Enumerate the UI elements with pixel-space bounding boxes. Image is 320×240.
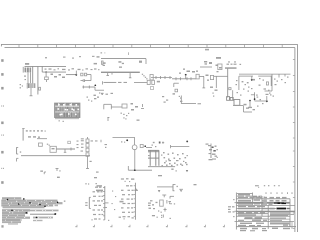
label dot bbox=[124, 218, 125, 219]
label bbox=[105, 144, 108, 145]
junction bbox=[45, 71, 47, 73]
capacitor C11 bbox=[180, 77, 182, 80]
wire bbox=[203, 76, 205, 88]
switch S1 bbox=[142, 104, 144, 107]
wire bbox=[255, 100, 267, 102]
diode D2 bbox=[152, 80, 155, 84]
label bbox=[152, 215, 155, 216]
label bbox=[94, 63, 97, 65]
capacitor C9 bbox=[169, 76, 171, 79]
resistor R1 bbox=[45, 77, 49, 80]
wire bbox=[21, 155, 90, 157]
label bbox=[216, 57, 221, 59]
capacitor C5 bbox=[88, 86, 90, 89]
junction bbox=[94, 84, 96, 86]
dark mark bbox=[186, 140, 188, 142]
wire bbox=[251, 76, 253, 80]
label dots bbox=[91, 219, 92, 220]
wire bbox=[82, 86, 95, 88]
wire bbox=[148, 166, 175, 168]
notes paragraph 2 bbox=[2, 209, 30, 211]
wire bbox=[249, 101, 251, 109]
wire bbox=[232, 90, 234, 100]
label row bbox=[28, 136, 31, 137]
ladder rung bbox=[148, 157, 159, 159]
capacitor C15 bbox=[266, 82, 268, 85]
label bbox=[148, 203, 151, 204]
wire bbox=[134, 137, 136, 145]
label dots bbox=[99, 92, 100, 93]
terminal bbox=[30, 95, 33, 97]
corner wire bbox=[174, 82, 179, 84]
wire bbox=[27, 72, 29, 83]
wire bbox=[45, 80, 47, 82]
wire bbox=[244, 111, 253, 113]
wire bbox=[42, 71, 66, 73]
label bbox=[149, 208, 152, 209]
ladder rung bbox=[148, 149, 159, 151]
bracket pin rail bbox=[26, 83, 28, 89]
label J1 bbox=[25, 63, 29, 65]
wire stub bbox=[111, 73, 113, 75]
label bbox=[118, 61, 121, 63]
wire bbox=[56, 148, 75, 150]
wire bbox=[151, 77, 172, 79]
label bbox=[24, 76, 26, 77]
wire dash bbox=[91, 140, 94, 141]
label bbox=[248, 107, 252, 108]
label bbox=[244, 104, 247, 106]
resistor R10 bbox=[234, 100, 240, 106]
label bbox=[97, 56, 100, 57]
ground bbox=[186, 170, 188, 172]
connector J2 bbox=[28, 83, 35, 88]
label bbox=[187, 71, 191, 73]
junction bbox=[249, 100, 251, 102]
label dashes bbox=[227, 64, 230, 65]
parts cluster bbox=[94, 95, 96, 96]
capacitor C4 bbox=[82, 86, 84, 89]
label bbox=[51, 74, 54, 76]
terminal bbox=[86, 168, 89, 170]
bracket bbox=[102, 81, 104, 84]
down arrow bbox=[158, 190, 161, 192]
arrow bbox=[136, 189, 138, 191]
label bbox=[137, 120, 140, 121]
resistor R2 bbox=[81, 73, 83, 76]
wire bbox=[215, 76, 217, 88]
label bbox=[264, 88, 267, 89]
capacitor C20 bbox=[68, 141, 71, 143]
resistor R3 bbox=[85, 73, 87, 76]
title block bbox=[235, 193, 237, 230]
triangle symbol bbox=[180, 189, 183, 191]
relay K1 bbox=[122, 104, 127, 108]
bracket bbox=[16, 158, 18, 161]
relay K3 cluster bbox=[208, 145, 211, 146]
terminal bbox=[202, 87, 205, 89]
bus bbox=[101, 72, 140, 73]
label dash bbox=[148, 151, 150, 152]
label dots bbox=[47, 144, 48, 145]
wire bbox=[25, 65, 67, 67]
label bbox=[206, 75, 209, 77]
wire stub bbox=[278, 74, 280, 77]
transistor Q1 bbox=[132, 145, 137, 150]
relay K2 detail bbox=[52, 148, 55, 149]
label bbox=[266, 94, 269, 95]
label bbox=[119, 217, 121, 218]
label dots bbox=[121, 141, 122, 142]
label bbox=[216, 65, 218, 67]
label dot bbox=[177, 186, 178, 187]
label bbox=[131, 103, 134, 105]
wire bbox=[32, 66, 34, 84]
stray dots bbox=[112, 191, 113, 192]
wire bbox=[254, 92, 256, 100]
capacitor C7 bbox=[160, 76, 162, 79]
IC U2 outline bbox=[103, 104, 105, 109]
label bbox=[156, 202, 158, 203]
wire bbox=[87, 137, 89, 139]
resistor R6 bbox=[210, 75, 213, 79]
label dots bbox=[59, 120, 60, 121]
label 2 bbox=[159, 142, 161, 144]
terminal bbox=[106, 75, 109, 77]
junction bbox=[185, 74, 187, 76]
net labels bbox=[49, 68, 52, 69]
ladder rail bbox=[155, 150, 157, 166]
wire bbox=[171, 146, 190, 148]
label bbox=[96, 172, 99, 173]
capacitor C8 bbox=[164, 76, 166, 79]
label dot bbox=[59, 170, 60, 171]
wire bbox=[214, 75, 228, 77]
label bbox=[209, 62, 212, 64]
wire bbox=[233, 104, 243, 106]
wire bbox=[94, 87, 96, 90]
bus bar bbox=[225, 67, 237, 68]
label dots bbox=[152, 145, 153, 146]
slanted wire bbox=[142, 74, 143, 75]
ladder rung bbox=[148, 151, 159, 153]
wire bbox=[180, 96, 182, 104]
bracket bbox=[22, 129, 24, 141]
label bbox=[194, 184, 197, 185]
ladder rail bbox=[158, 150, 160, 166]
wire bbox=[239, 75, 253, 77]
polarity mark bbox=[162, 142, 164, 144]
wire bbox=[90, 75, 92, 81]
label bbox=[246, 108, 249, 109]
diode D3 bbox=[140, 145, 143, 148]
wire bbox=[101, 58, 146, 60]
wire bbox=[113, 136, 135, 138]
capacitor C18 bbox=[170, 145, 172, 148]
label bbox=[102, 62, 105, 64]
resistor R11 bbox=[39, 143, 43, 146]
wire bbox=[266, 96, 268, 101]
resistor R5 bbox=[196, 74, 199, 79]
label dots bbox=[260, 99, 262, 100]
wire bbox=[134, 150, 136, 170]
wire bbox=[200, 66, 212, 68]
label dots bbox=[212, 93, 213, 94]
junction bbox=[251, 79, 253, 81]
wire bbox=[64, 149, 66, 152]
wire bbox=[185, 75, 187, 79]
label dots bbox=[245, 84, 247, 85]
label bbox=[59, 74, 62, 76]
label bbox=[205, 49, 209, 51]
label bbox=[173, 93, 176, 94]
bracket bbox=[162, 215, 164, 218]
label bbox=[139, 61, 142, 63]
label dots bbox=[161, 215, 162, 216]
label dots bbox=[88, 100, 89, 101]
ladder rail bbox=[149, 150, 151, 166]
wire bbox=[127, 166, 129, 170]
wire stub bbox=[284, 74, 286, 76]
wire bbox=[181, 103, 196, 105]
wire bbox=[134, 82, 147, 84]
resistor R7 bbox=[175, 89, 178, 92]
connector CN2 pin labels bbox=[134, 183, 136, 220]
capacitor C1 bbox=[39, 87, 41, 90]
label row bbox=[26, 130, 28, 131]
label dots bbox=[20, 84, 21, 85]
resistor array R13 bbox=[86, 144, 89, 148]
wire bbox=[45, 72, 47, 77]
corner bbox=[170, 195, 174, 197]
wire dash bbox=[198, 103, 202, 104]
wire bbox=[271, 74, 273, 91]
wire stub bbox=[105, 202, 109, 204]
junction bbox=[134, 169, 136, 171]
bracket bbox=[88, 197, 90, 208]
bracket pin rail bbox=[22, 67, 24, 73]
label bbox=[57, 177, 60, 178]
wire bbox=[251, 94, 255, 96]
label dots bbox=[158, 210, 159, 211]
wire bbox=[258, 75, 271, 77]
label dots bbox=[242, 81, 244, 82]
label bbox=[157, 81, 160, 83]
bracket bbox=[172, 185, 174, 191]
label bbox=[162, 96, 164, 97]
wire bbox=[95, 89, 104, 91]
wire bbox=[87, 156, 89, 168]
junction bbox=[75, 74, 77, 76]
resistor array R12 bbox=[86, 139, 89, 143]
label bbox=[85, 202, 87, 203]
terminal bbox=[129, 77, 132, 79]
capacitor C16 bbox=[70, 148, 72, 151]
terminal bbox=[64, 151, 67, 153]
label bbox=[121, 178, 124, 179]
label bbox=[158, 175, 162, 176]
pin rail bbox=[166, 200, 168, 204]
capacitor C6 bbox=[155, 76, 157, 79]
label bbox=[153, 142, 155, 143]
label bbox=[62, 77, 65, 79]
diode D1 bbox=[147, 80, 150, 84]
connector CN1 pin labels bbox=[104, 186, 106, 220]
revision marks bbox=[255, 185, 259, 186]
wire bbox=[85, 80, 92, 82]
wire bbox=[66, 74, 76, 76]
label bbox=[40, 171, 43, 172]
DIP switch block SW1 bbox=[55, 103, 81, 118]
ground bbox=[56, 168, 59, 170]
label dots bbox=[123, 117, 124, 118]
capacitor C17 bbox=[100, 140, 102, 142]
wire bbox=[145, 59, 147, 64]
label dots bbox=[259, 78, 261, 79]
junction bbox=[266, 100, 268, 102]
wire bbox=[87, 74, 91, 76]
capacitor C3 bbox=[102, 61, 104, 64]
relay K2 bbox=[50, 146, 56, 152]
capacitor C10 bbox=[175, 77, 177, 80]
resistor array R14 bbox=[86, 148, 89, 152]
resistor R9 bbox=[230, 98, 233, 101]
bracket bbox=[107, 117, 109, 121]
connector J2 hatching bbox=[29, 83, 31, 88]
capacitor C12 bbox=[186, 77, 188, 80]
label bbox=[204, 61, 207, 63]
label dot bbox=[174, 203, 175, 204]
wire bbox=[30, 88, 32, 96]
connector J1 bbox=[25, 68, 32, 73]
label dot bbox=[20, 151, 21, 152]
label bbox=[253, 79, 255, 81]
capacitor C14 bbox=[229, 88, 231, 90]
label rows bbox=[81, 138, 84, 139]
wire bbox=[41, 66, 43, 72]
component field bbox=[163, 152, 165, 153]
resistor R8 bbox=[227, 97, 230, 101]
resistor array R15 bbox=[86, 153, 89, 157]
bracket bbox=[16, 147, 18, 154]
wire bbox=[157, 186, 173, 188]
wire bbox=[238, 76, 240, 90]
wire stub bbox=[105, 207, 107, 209]
wire bbox=[81, 80, 84, 82]
polarity mark bbox=[164, 208, 166, 212]
junction bbox=[144, 145, 146, 147]
label bbox=[54, 76, 57, 78]
wire bbox=[146, 147, 152, 149]
label bbox=[210, 87, 213, 88]
wire bbox=[104, 81, 117, 83]
junction bbox=[126, 139, 128, 141]
wire stub bbox=[107, 73, 109, 76]
junction bbox=[254, 98, 256, 100]
wire bbox=[243, 105, 245, 112]
wire bbox=[239, 73, 291, 75]
label dots bbox=[125, 181, 126, 182]
label dot bbox=[176, 170, 177, 171]
wire bbox=[265, 90, 273, 92]
wire dash bbox=[118, 82, 122, 83]
wire bbox=[75, 71, 77, 75]
connector J1 hatching bbox=[26, 68, 28, 73]
ground bbox=[162, 194, 166, 196]
IC U4 bbox=[218, 64, 222, 70]
label dots bbox=[236, 80, 238, 81]
wire bbox=[30, 72, 32, 83]
wire bbox=[37, 138, 47, 140]
label dots bbox=[179, 96, 180, 97]
IC U3 bbox=[160, 200, 164, 206]
capacitor C2 bbox=[82, 79, 84, 82]
wire bbox=[199, 75, 204, 77]
corner bbox=[170, 203, 173, 205]
capacitor C19 bbox=[151, 87, 154, 90]
label dots bbox=[256, 95, 258, 96]
bracket bbox=[43, 172, 45, 174]
wire bbox=[227, 69, 229, 98]
label dots bbox=[121, 113, 122, 114]
wire bbox=[270, 76, 272, 86]
label row bbox=[101, 93, 104, 94]
wire bbox=[111, 106, 122, 108]
wire bbox=[128, 169, 152, 171]
label bbox=[169, 201, 172, 202]
wire bbox=[172, 78, 196, 80]
label bbox=[171, 169, 173, 170]
wire bbox=[37, 66, 39, 94]
notes paragraph 1 bbox=[2, 197, 21, 199]
wire bbox=[55, 118, 79, 120]
capacitor C13 bbox=[190, 77, 192, 80]
connector P1 bbox=[150, 75, 153, 81]
wire stub bbox=[129, 73, 131, 78]
label bbox=[180, 101, 182, 102]
label dots bbox=[96, 183, 97, 184]
